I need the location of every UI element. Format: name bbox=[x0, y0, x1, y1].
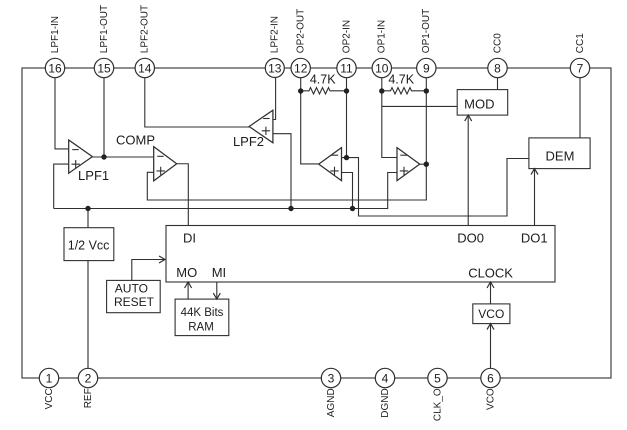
plus symbol LPF1 bbox=[72, 160, 80, 168]
svg-text:6: 6 bbox=[487, 371, 494, 385]
minus symbol LPF1 bbox=[72, 149, 79, 151]
op-amp COMP bbox=[154, 147, 177, 181]
wire OP2 minus node to DEM input bbox=[347, 158, 529, 216]
wire OP1 output to pin9 line bbox=[420, 163, 427, 165]
pin 1 bbox=[39, 368, 58, 387]
svg-text:CLK_O: CLK_O bbox=[432, 388, 443, 421]
svg-text:44K Bits: 44K Bits bbox=[181, 307, 224, 319]
pin 8 bbox=[488, 58, 507, 77]
op-amp LPF1 bbox=[69, 140, 93, 173]
pin 12 bbox=[291, 58, 310, 77]
svg-text:LPF2-OUT: LPF2-OUT bbox=[140, 5, 151, 53]
wire AUTO RESET to logic block bbox=[132, 260, 165, 281]
svg-text:LPF1-OUT: LPF1-OUT bbox=[99, 5, 110, 53]
svg-text:MO: MO bbox=[176, 265, 197, 280]
box DEM bbox=[529, 138, 590, 169]
svg-text:VCO: VCO bbox=[485, 388, 496, 410]
wire COMP output to DI input of logic block bbox=[177, 164, 189, 226]
svg-text:13: 13 bbox=[268, 61, 282, 75]
junction 1/2Vcc on rail bbox=[85, 206, 90, 211]
resistor R1 4.7K between pin12 and pin11 bbox=[301, 88, 347, 94]
arrowhead into logic block CLOCK bbox=[487, 282, 494, 288]
junction OP1 out / pin9 bbox=[424, 162, 429, 167]
svg-text:AUTO: AUTO bbox=[115, 282, 148, 296]
pin circles top bbox=[39, 58, 589, 387]
IC body outline bbox=[22, 68, 611, 378]
svg-text:CLOCK: CLOCK bbox=[468, 266, 513, 281]
svg-text:RESET: RESET bbox=[114, 295, 155, 309]
wire pin10 to OP1 minus input bbox=[382, 78, 397, 158]
svg-text:MI: MI bbox=[212, 265, 226, 280]
wire 1/2 Vcc box bottom to pin 2 bbox=[87, 261, 89, 369]
wire pin6 to VCO bottom bbox=[490, 324, 492, 369]
svg-text:LPF1: LPF1 bbox=[78, 168, 109, 183]
plus symbol OP1 bbox=[400, 167, 408, 175]
wire LPF2 plus input down to rail bbox=[273, 134, 291, 209]
wire LPF1 output to COMP minus input bbox=[92, 156, 153, 158]
svg-text:REF: REF bbox=[83, 388, 94, 408]
arrowhead into DEM bbox=[531, 169, 538, 175]
wire VCO to CLOCK input of logic block bbox=[490, 282, 492, 304]
wire MI from logic block to RAM bbox=[216, 282, 218, 299]
svg-text:LPF2: LPF2 bbox=[233, 134, 264, 149]
pin 6 bbox=[481, 368, 500, 387]
svg-text:DO0: DO0 bbox=[457, 231, 484, 246]
svg-text:OP2-OUT: OP2-OUT bbox=[296, 9, 307, 53]
svg-text:5: 5 bbox=[434, 371, 441, 385]
wire COMP plus input feedback from OP1 output bbox=[147, 164, 426, 200]
box AUTO RESET bbox=[107, 280, 161, 312]
svg-text:10: 10 bbox=[375, 61, 389, 75]
arrowhead into logic block MO bbox=[185, 282, 192, 288]
wire reference rail to OP1 plus input bbox=[54, 173, 397, 209]
wire OP1 minus node to MOD input bbox=[382, 105, 457, 107]
pin 5 bbox=[428, 368, 447, 387]
pin 7 bbox=[570, 58, 589, 77]
minus symbol LPF2 bbox=[263, 118, 270, 120]
svg-text:4.7K: 4.7K bbox=[388, 73, 414, 87]
svg-text:3: 3 bbox=[328, 371, 335, 385]
arrowhead into VCO bbox=[487, 324, 494, 330]
svg-text:16: 16 bbox=[48, 61, 62, 75]
label AUTO RESET bbox=[114, 282, 155, 310]
svg-text:7: 7 bbox=[577, 61, 584, 75]
svg-text:8: 8 bbox=[494, 61, 501, 75]
svg-text:14: 14 bbox=[138, 61, 152, 75]
svg-text:OP1-OUT: OP1-OUT bbox=[421, 9, 432, 53]
block labels bbox=[78, 73, 574, 322]
arrowhead AUTO RESET into logic block bbox=[159, 256, 165, 263]
svg-text:MOD: MOD bbox=[464, 96, 494, 111]
pin 11 bbox=[337, 58, 356, 77]
pin 16 bbox=[45, 58, 64, 77]
bottom pin labels rotated bbox=[44, 388, 496, 421]
top pin labels rotated bbox=[50, 5, 586, 53]
box MOD bbox=[457, 90, 508, 116]
svg-text:VCO: VCO bbox=[478, 307, 504, 321]
svg-text:1/2 Vcc: 1/2 Vcc bbox=[68, 239, 110, 253]
minus symbol OP2 bbox=[331, 154, 338, 156]
svg-text:DEM: DEM bbox=[546, 148, 575, 163]
svg-text:CC1: CC1 bbox=[575, 33, 586, 53]
junction R1 right bbox=[344, 88, 349, 93]
svg-text:11: 11 bbox=[340, 61, 353, 75]
junction R2 left bbox=[379, 88, 384, 93]
wire DO1 from logic block to DEM bottom bbox=[534, 169, 536, 226]
op-amp LPF2 bbox=[249, 110, 273, 143]
svg-text:9: 9 bbox=[423, 61, 430, 75]
svg-text:DGND: DGND bbox=[380, 388, 391, 417]
pin 9 bbox=[417, 58, 436, 77]
junction OP2 minus / pin11 bbox=[344, 155, 349, 160]
plus symbol COMP bbox=[157, 167, 165, 175]
wire DO0 from logic block to MOD bottom bbox=[467, 115, 469, 225]
box VCO bbox=[473, 304, 510, 324]
wire pin12 to OP2 output bbox=[301, 78, 319, 164]
box 1/2 Vcc bbox=[64, 228, 114, 261]
svg-text:AGND: AGND bbox=[326, 388, 337, 417]
op-amp OP2 bbox=[319, 148, 342, 181]
pin 13 bbox=[265, 59, 284, 78]
plus symbol OP2 bbox=[330, 167, 338, 175]
wire MO from RAM to logic block bbox=[187, 282, 189, 299]
wire pin14 to LPF2 output bbox=[145, 78, 249, 128]
pin 2 bbox=[78, 368, 97, 387]
svg-text:DI: DI bbox=[183, 231, 196, 246]
wire OP2 plus input down to rail bbox=[342, 173, 353, 209]
svg-text:4: 4 bbox=[382, 371, 389, 385]
arrowhead into RAM MI bbox=[213, 293, 220, 299]
label 44K Bits RAM bbox=[181, 307, 224, 333]
wire 1/2 Vcc box top to rail bbox=[87, 209, 89, 228]
svg-text:RAM: RAM bbox=[188, 321, 214, 333]
wire LPF1 plus input down to reference rail bbox=[54, 164, 69, 208]
pin 14 bbox=[135, 58, 154, 77]
wire pin9 to OP1 output node bbox=[425, 78, 427, 165]
wire pin13 to LPF2 minus input bbox=[273, 78, 276, 120]
plus symbol LPF2 bbox=[262, 127, 270, 135]
junction R2 right bbox=[424, 88, 429, 93]
svg-text:VCC: VCC bbox=[44, 388, 55, 409]
arrowhead into MOD bbox=[465, 115, 472, 121]
svg-text:CC0: CC0 bbox=[492, 33, 503, 53]
pin 15 bbox=[94, 58, 113, 77]
junction R1 left bbox=[298, 88, 303, 93]
svg-text:OP1-IN: OP1-IN bbox=[377, 20, 388, 53]
wire pin15 to LPF1 output node bbox=[103, 78, 105, 158]
resistor R2 4.7K between pin10 and pin9 bbox=[382, 88, 427, 94]
minus symbol COMP bbox=[157, 155, 164, 157]
junction pin15/LPF1 out bbox=[101, 154, 106, 159]
pin 3 bbox=[321, 368, 340, 387]
junction OP2 plus on rail bbox=[350, 206, 355, 211]
wire pin8 to MOD top bbox=[497, 78, 499, 90]
svg-text:2: 2 bbox=[85, 371, 92, 385]
pin 4 bbox=[375, 368, 394, 387]
svg-text:OP2-IN: OP2-IN bbox=[341, 20, 352, 53]
junction LPF2 plus on rail bbox=[288, 206, 293, 211]
op-amp OP1 bbox=[397, 148, 420, 181]
svg-text:LPF2-IN: LPF2-IN bbox=[270, 16, 281, 53]
svg-text:1: 1 bbox=[46, 371, 53, 385]
label 1/2 Vcc bbox=[68, 239, 110, 253]
svg-text:15: 15 bbox=[97, 61, 111, 75]
wire pin16 to LPF1 minus input bbox=[55, 78, 69, 149]
svg-text:COMP: COMP bbox=[116, 133, 155, 148]
svg-text:12: 12 bbox=[294, 61, 308, 75]
box 44K Bits RAM bbox=[175, 299, 229, 336]
pin 10 bbox=[372, 58, 391, 77]
minus symbol OP1 bbox=[400, 154, 407, 156]
wire pin11 to OP2 minus input bbox=[342, 78, 347, 158]
junction dots bbox=[85, 88, 429, 211]
box logic block DI/DO/CLOCK bbox=[166, 226, 555, 283]
wire pin7 to DEM top bbox=[579, 78, 581, 138]
svg-text:4.7K: 4.7K bbox=[310, 73, 336, 87]
svg-text:LPF1-IN: LPF1-IN bbox=[50, 16, 61, 53]
svg-text:DO1: DO1 bbox=[521, 231, 548, 246]
